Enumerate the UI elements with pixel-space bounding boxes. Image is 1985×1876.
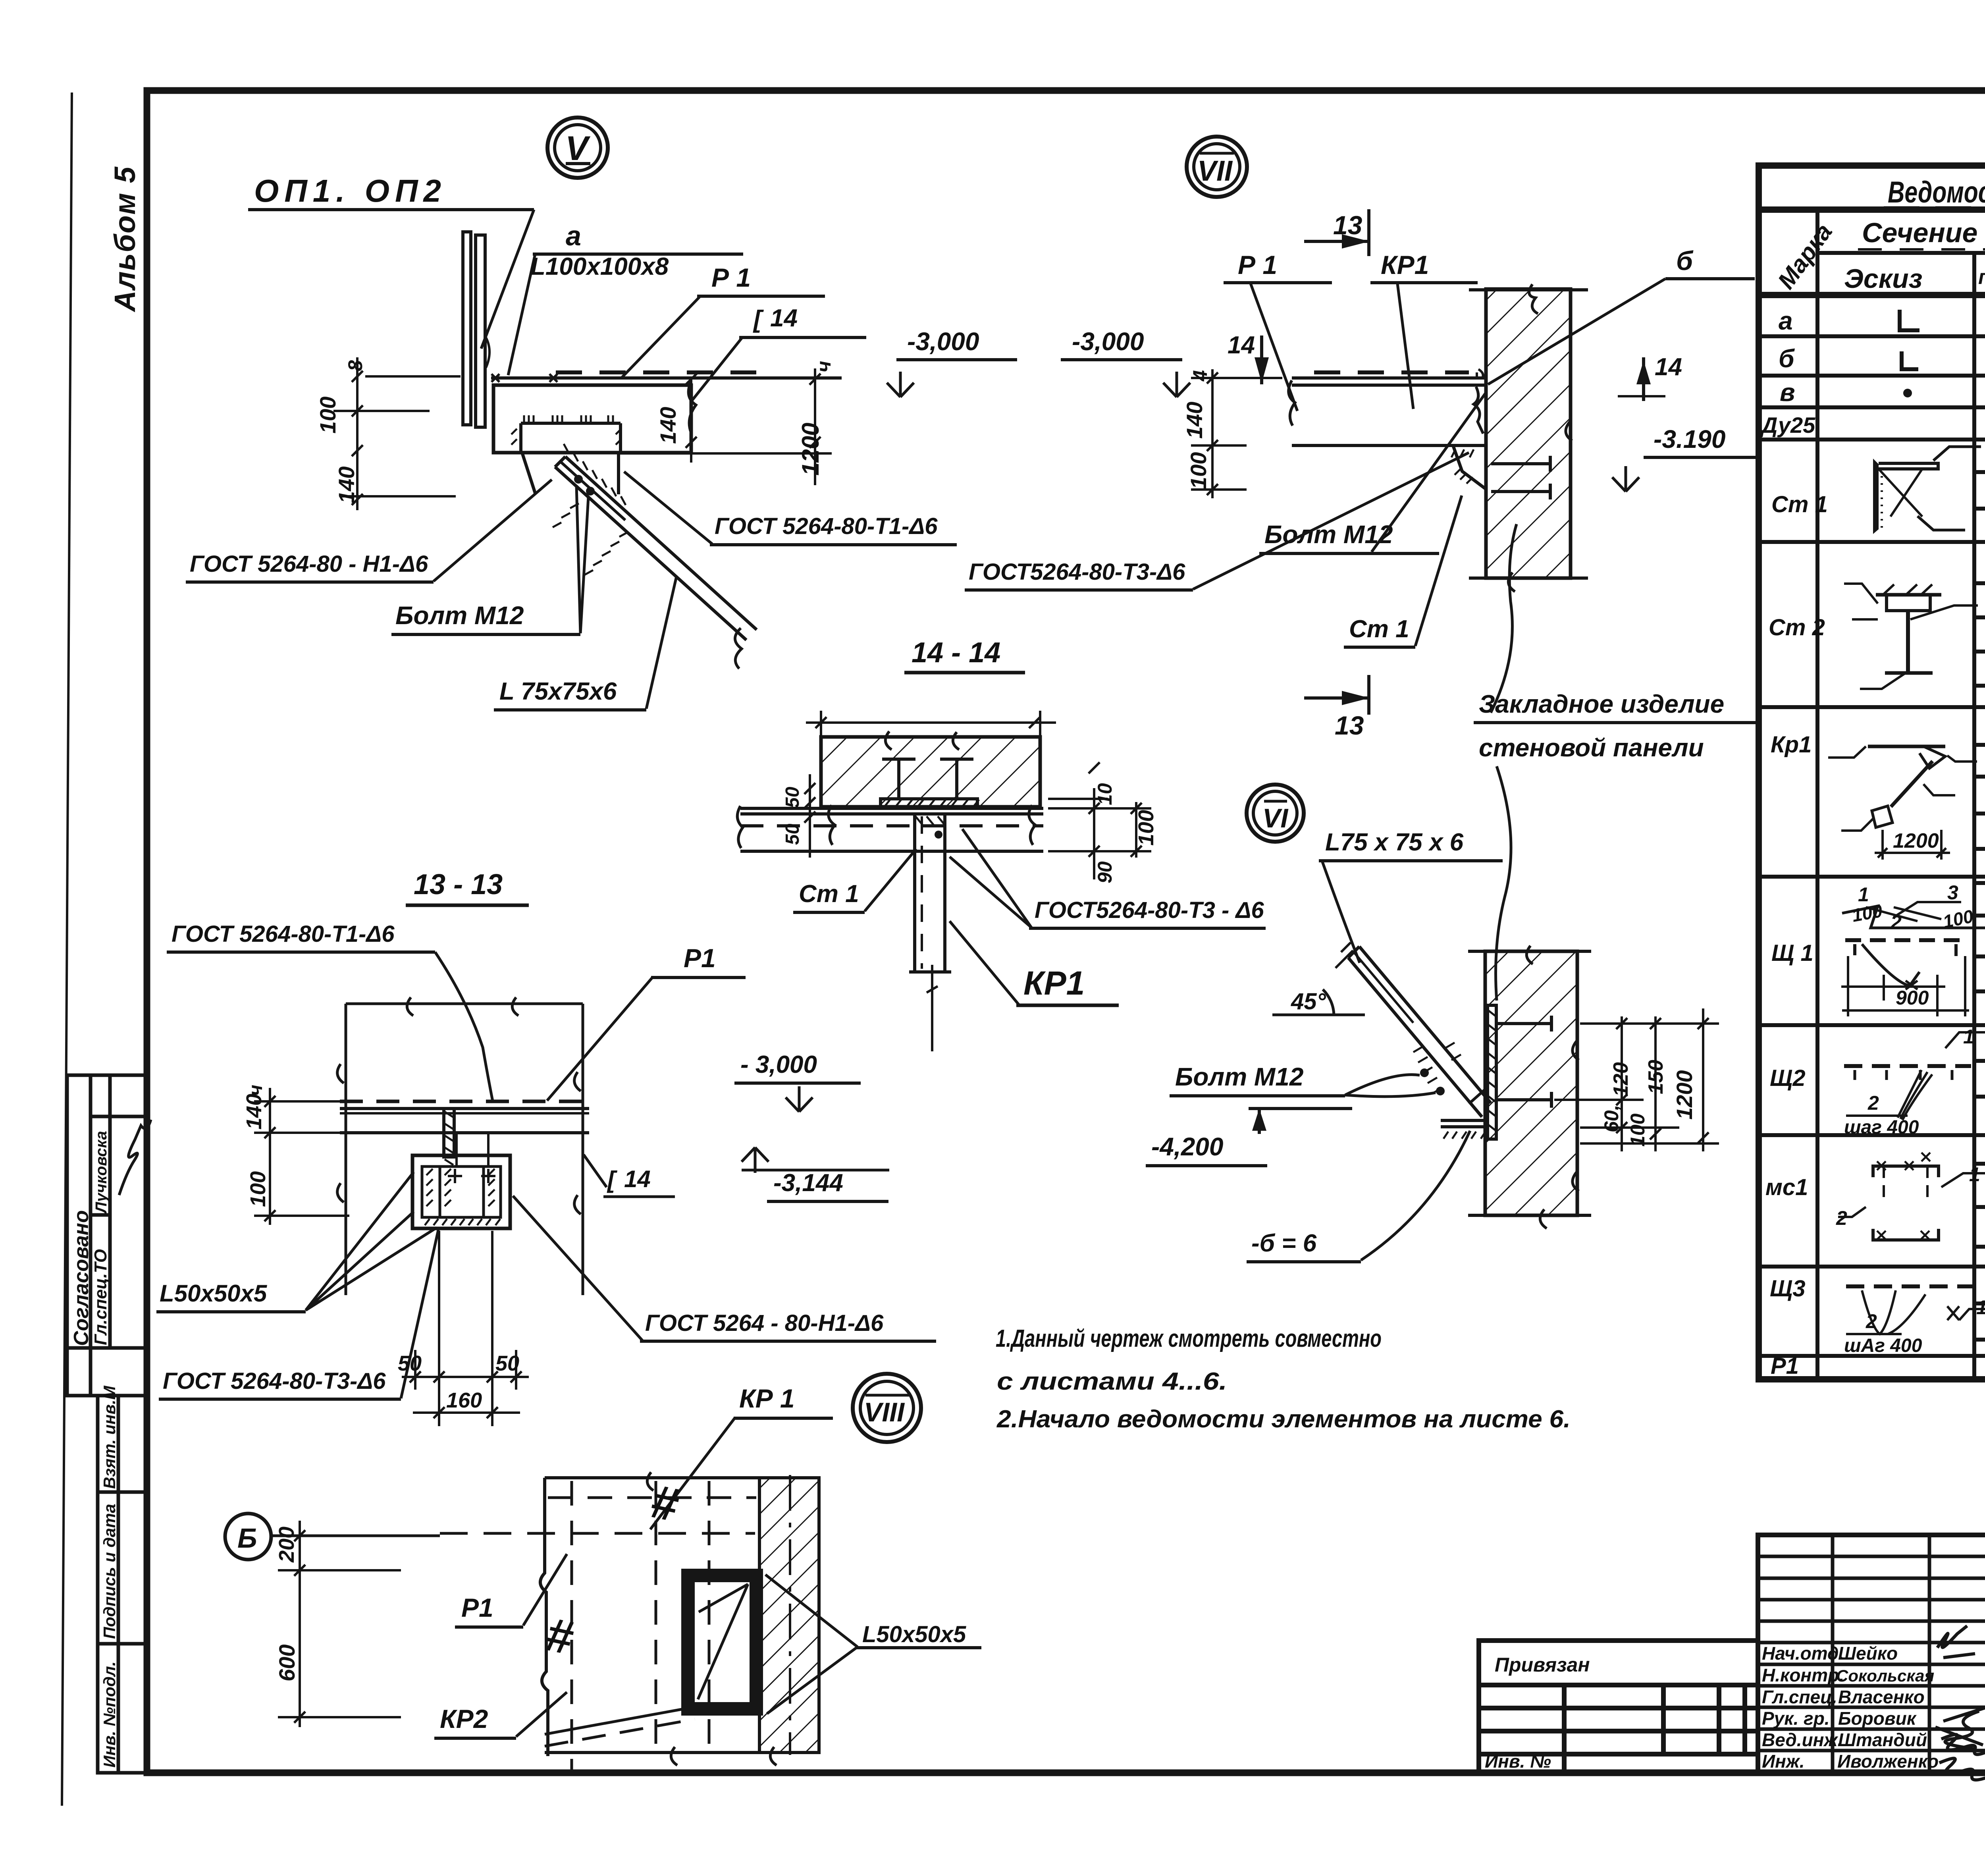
svg-text:100: 100 — [246, 1171, 270, 1207]
svg-text:Власенко: Власенко — [1838, 1687, 1925, 1707]
svg-text:мс1: мс1 — [1765, 1174, 1808, 1200]
svg-text:-3,000: -3,000 — [907, 327, 979, 356]
svg-text:-3,000: -3,000 — [1072, 327, 1144, 356]
svg-text:50: 50 — [782, 823, 803, 845]
svg-text:- 3,000: - 3,000 — [740, 1051, 817, 1078]
svg-text:ГОСТ5264-80-Т3-Δ6: ГОСТ5264-80-Т3-Δ6 — [969, 559, 1185, 585]
svg-text:Иволженко: Иволженко — [1837, 1751, 1939, 1772]
svg-text:шАг 400: шАг 400 — [1844, 1335, 1922, 1356]
Shch3 sketch — [1846, 1284, 1973, 1288]
svg-text:Р1: Р1 — [684, 943, 716, 973]
svg-text:Вед.инж.: Вед.инж. — [1762, 1729, 1842, 1750]
svg-text:Р1: Р1 — [461, 1593, 493, 1622]
svg-text:Лучковска: Лучковска — [93, 1131, 110, 1214]
svg-text:13: 13 — [1333, 210, 1362, 240]
svg-text:а: а — [1779, 307, 1793, 335]
svg-text:Кр1: Кр1 — [1771, 732, 1812, 758]
svg-text:ГОСТ 5264-80-Т1-Δ6: ГОСТ 5264-80-Т1-Δ6 — [172, 921, 395, 947]
svg-text:Подпись и дата: Подпись и дата — [100, 1504, 119, 1639]
svg-text:2: 2 — [1866, 1310, 1877, 1332]
svg-text:L50х50х5: L50х50х5 — [862, 1621, 966, 1647]
svg-text:а: а — [566, 220, 581, 251]
right break on beam — [688, 381, 696, 433]
svg-text:Взят. инв.М: Взят. инв.М — [100, 1385, 119, 1489]
dims right (VI): 60/120/150/100/1200 — [1554, 1008, 1719, 1151]
svg-text:ГОСТ 5264-80-Т1-Δ6: ГОСТ 5264-80-Т1-Δ6 — [715, 513, 938, 539]
svg-text:-3,144: -3,144 — [773, 1169, 843, 1197]
svg-text:1200: 1200 — [1672, 1070, 1697, 1120]
svg-text:L50х50х5: L50х50х5 — [160, 1280, 268, 1307]
wall (VI) — [1468, 946, 1591, 1228]
svg-text:Шейко: Шейко — [1838, 1643, 1898, 1664]
row a: angle symbol — [1900, 310, 1919, 330]
node circle V — [547, 118, 608, 178]
svg-text:L100х100х8: L100х100х8 — [530, 253, 669, 280]
dims right 10/100/90 — [1048, 762, 1151, 879]
svg-text:б: б — [1779, 344, 1795, 373]
svg-text:в: в — [1780, 378, 1795, 407]
svg-text:60,: 60, — [1600, 1105, 1623, 1132]
svg-text:150: 150 — [1644, 1060, 1667, 1094]
inner plate with welds — [521, 422, 621, 425]
svg-text:Инв. №: Инв. № — [1485, 1751, 1551, 1772]
svg-text:Болт М12: Болт М12 — [395, 601, 524, 630]
svg-text:Эскиз: Эскиз — [1844, 264, 1922, 294]
eskiz sketches — [1828, 310, 1981, 860]
svg-text:90: 90 — [1094, 861, 1116, 883]
svg-text:Сокольская: Сокольская — [1836, 1666, 1934, 1685]
sub-header line — [1817, 251, 1985, 255]
diagonal brace — [555, 467, 746, 640]
svg-text:Боровик: Боровик — [1838, 1708, 1917, 1729]
Kr1 sketch — [1868, 745, 1945, 748]
svg-text:Ст 1: Ст 1 — [799, 880, 859, 908]
svg-text:Закладное изделие: Закладное изделие — [1479, 690, 1724, 718]
svg-text:Сечение: Сечение — [1862, 217, 1977, 248]
svg-text:Б: Б — [237, 1523, 257, 1554]
main stamp outline — [1758, 1535, 1985, 1772]
svg-text:200: 200 — [275, 1527, 299, 1563]
sheet outer thin border left — [62, 93, 72, 1806]
Shch2 sketch — [1844, 1064, 1971, 1068]
anchor bolts into wall — [1491, 462, 1550, 465]
svg-text:ч: ч — [813, 361, 835, 372]
frame verticals with breaks — [337, 997, 583, 1295]
svg-text:Ст 2: Ст 2 — [1769, 615, 1825, 640]
svg-text:с листами 4...6.: с листами 4...6. — [997, 1368, 1227, 1395]
svg-text:45°: 45° — [1291, 989, 1326, 1014]
svg-text:14: 14 — [1228, 332, 1255, 359]
post KP1 — [909, 814, 951, 1051]
beam run 14-14 — [737, 805, 1043, 851]
svg-text:-б = 6: -б = 6 — [1251, 1230, 1317, 1257]
bracket at wall — [1453, 445, 1486, 489]
svg-text:Гл.спец.ТО: Гл.спец.ТО — [91, 1249, 110, 1345]
soffit plate — [881, 799, 977, 808]
svg-text:140: 140 — [1182, 402, 1207, 439]
ms1 sketch — [1873, 1166, 1939, 1177]
svg-text:13: 13 — [1335, 711, 1364, 740]
node circle VII — [1187, 137, 1247, 197]
dims 4/140/100 left of beam — [1191, 369, 1247, 498]
svg-text:ГОСТ5264-80-Т3 - Δ6: ГОСТ5264-80-Т3 - Δ6 — [1035, 897, 1264, 923]
svg-text:100: 100 — [1134, 810, 1158, 846]
title row line — [1759, 206, 1985, 213]
svg-text:Нач.отд.: Нач.отд. — [1762, 1643, 1844, 1664]
left stamp upper block (Согласовано) — [67, 1075, 147, 1396]
bolts on brace — [574, 475, 583, 484]
table outer border — [1759, 166, 1985, 1379]
svg-text:Рук. гр.: Рук. гр. — [1762, 1708, 1830, 1729]
svg-text:ОП1. ОП2: ОП1. ОП2 — [254, 173, 447, 208]
wall plate + bolts (VI) — [1488, 1005, 1551, 1139]
svg-text:Штандий: Штандий — [1838, 1729, 1927, 1750]
svg-text:140: 140 — [655, 407, 680, 444]
anchors in slab — [881, 759, 979, 808]
svg-text:-3.190: -3.190 — [1654, 425, 1725, 453]
svg-text:V: V — [565, 129, 591, 168]
embedded item box — [412, 1133, 510, 1228]
beam VII — [1289, 369, 1550, 499]
column: Marka — [1815, 210, 1819, 1379]
dim stack left (8/100/140) — [333, 357, 461, 510]
svg-text:160: 160 — [446, 1388, 482, 1412]
weld stub to embedded box — [444, 1109, 454, 1157]
svg-text:Р 1: Р 1 — [1238, 250, 1277, 280]
elevation -4,200 — [1249, 1107, 1352, 1110]
svg-text:13 - 13: 13 - 13 — [414, 869, 503, 900]
weld corner at top junction — [1477, 369, 1483, 378]
svg-text:КР1: КР1 — [1023, 964, 1085, 1002]
svg-text:14 - 14: 14 - 14 — [912, 637, 1000, 669]
svg-text:50: 50 — [398, 1352, 422, 1375]
svg-text:Привязан: Привязан — [1495, 1654, 1590, 1676]
diagonal brace (VI) — [1336, 943, 1491, 1139]
signature scrawl — [119, 1120, 151, 1195]
svg-text:VII: VII — [1197, 155, 1233, 187]
dims left 50/50 — [804, 774, 815, 858]
svg-text:600: 600 — [274, 1645, 299, 1681]
svg-text:900: 900 — [1896, 987, 1929, 1009]
svg-text:Р1: Р1 — [1771, 1353, 1799, 1379]
bracket under beam — [522, 453, 619, 494]
svg-text:Болт М12: Болт М12 — [1175, 1062, 1303, 1091]
wall panel plan — [540, 1472, 819, 1772]
svg-text:VI: VI — [1262, 803, 1289, 833]
svg-text:1.Данный чертеж смотреть со: 1.Данный чертеж смотреть совместно — [996, 1325, 1382, 1352]
svg-text:4: 4 — [1189, 370, 1211, 382]
row v: dot — [1903, 389, 1912, 397]
slab hatched — [806, 711, 1056, 807]
svg-text:поз: поз — [1978, 266, 1985, 289]
svg-text:L75 х 75 х 6: L75 х 75 х 6 — [1325, 829, 1464, 856]
name rows grid — [1758, 1555, 1985, 1558]
post OP1 (two vertical plates) — [463, 232, 490, 427]
svg-text:1: 1 — [1963, 1026, 1974, 1048]
svg-text:100: 100 — [1186, 452, 1211, 489]
svg-text:-4,200: -4,200 — [1151, 1132, 1223, 1161]
svg-text:2: 2 — [1836, 1207, 1847, 1229]
beam run 13-13 — [340, 1101, 589, 1165]
svg-text:Р 1: Р 1 — [711, 263, 751, 292]
svg-text:Ду25: Ду25 — [1760, 413, 1815, 438]
St2 sketch: I-post — [1876, 593, 1941, 597]
svg-text:Гл.спец.: Гл.спец. — [1762, 1687, 1837, 1707]
pos sub-row lines — [1974, 470, 1985, 474]
svg-text:КР1: КР1 — [1381, 250, 1429, 280]
svg-text:50: 50 — [782, 787, 803, 808]
row b: angle symbol — [1902, 351, 1918, 369]
svg-text:1: 1 — [1976, 1296, 1985, 1319]
node circle VIII — [853, 1374, 921, 1442]
svg-text:1200: 1200 — [1893, 829, 1939, 852]
dims left 4/140/100 (13-13) — [254, 1088, 349, 1225]
svg-text:Щ2: Щ2 — [1770, 1065, 1806, 1091]
embedded channel (dark) — [681, 1569, 763, 1716]
view mark B circle — [225, 1514, 271, 1560]
svg-text:L 75х75х6: L 75х75х6 — [499, 678, 617, 705]
svg-text:1200: 1200 — [797, 423, 824, 476]
svg-text:Альбом 5: Альбом 5 — [108, 166, 141, 312]
svg-text:100: 100 — [315, 397, 340, 434]
svg-text:КР 1: КР 1 — [739, 1384, 795, 1413]
svg-text:ГОСТ 5264-80 - Н1-Δ6: ГОСТ 5264-80 - Н1-Δ6 — [190, 551, 428, 577]
svg-text:14: 14 — [624, 1166, 651, 1192]
gusset hatch (weld ticks) — [564, 444, 626, 505]
St1 sketch: corner bracket — [1873, 459, 1879, 534]
wall (hatched) — [1469, 284, 1588, 592]
svg-text:10: 10 — [1094, 783, 1116, 805]
svg-text:Согласовано: Согласовано — [70, 1210, 93, 1346]
header bottom — [1759, 292, 1985, 298]
body row lines — [1759, 334, 1985, 338]
svg-text:ГОСТ 5264 - 80-Н1-Δ6: ГОСТ 5264 - 80-Н1-Δ6 — [645, 1310, 884, 1336]
names — [1762, 1643, 1939, 1772]
column: Eskiz/poz — [1972, 253, 1976, 1379]
svg-text:Щ 1: Щ 1 — [1771, 940, 1813, 966]
seat plates — [1441, 1120, 1487, 1127]
svg-text:140: 140 — [242, 1094, 266, 1130]
svg-text:VIII: VIII — [864, 1397, 905, 1427]
svg-text:100: 100 — [1627, 1113, 1649, 1147]
svg-text:2: 2 — [1867, 1092, 1879, 1114]
svg-text:1: 1 — [1858, 883, 1869, 906]
svg-text:ГОСТ 5264-80-Т3-Δ6: ГОСТ 5264-80-Т3-Δ6 — [163, 1368, 386, 1394]
svg-text:1: 1 — [1969, 1163, 1980, 1186]
svg-text:Н.контр.: Н.контр. — [1762, 1665, 1844, 1685]
dashed partitions — [570, 1481, 573, 1772]
svg-text:КР2: КР2 — [440, 1704, 488, 1733]
privyazan block — [1479, 1641, 1758, 1772]
svg-text:Ст 1: Ст 1 — [1771, 492, 1828, 517]
vertical dim 200/600 — [278, 1521, 401, 1727]
svg-text:Ст 1: Ст 1 — [1349, 615, 1409, 643]
svg-text:стеновой панели: стеновой панели — [1479, 733, 1704, 762]
svg-text:б: б — [1676, 246, 1694, 276]
hatched wall right — [759, 1478, 819, 1753]
svg-text:140: 140 — [334, 467, 359, 503]
svg-text:Инж.: Инж. — [1762, 1751, 1805, 1772]
Shch1 sketch — [1842, 906, 1985, 928]
svg-text:2: 2 — [1890, 911, 1902, 933]
left stamp lower block (Взам/Подпись/Инв) — [98, 1396, 147, 1773]
svg-text:3: 3 — [1947, 881, 1958, 904]
KP2 sloped strip — [545, 1707, 693, 1734]
svg-text:Ведомость элементов: Ведомость элементов — [1888, 175, 1985, 209]
node circle VI — [1247, 785, 1304, 842]
beam of detail V — [491, 372, 842, 669]
svg-text:14: 14 — [770, 305, 798, 332]
svg-text:Инв. №подл.: Инв. №подл. — [100, 1662, 119, 1768]
dim 140 / 1200 right side — [619, 368, 832, 485]
svg-text:50: 50 — [495, 1352, 519, 1375]
svg-text:8: 8 — [344, 360, 366, 371]
dims 50/160/50 below — [402, 1231, 529, 1426]
svg-text:шаг 400: шаг 400 — [1844, 1117, 1919, 1138]
svg-text:2.Начало ведомости элементов: 2.Начало ведомости элементов на листе 6. — [996, 1406, 1571, 1433]
svg-text:120: 120 — [1609, 1062, 1632, 1097]
signatures scrawls — [1937, 1626, 1975, 1658]
svg-text:Щ3: Щ3 — [1770, 1276, 1806, 1301]
svg-text:14: 14 — [1655, 353, 1682, 381]
